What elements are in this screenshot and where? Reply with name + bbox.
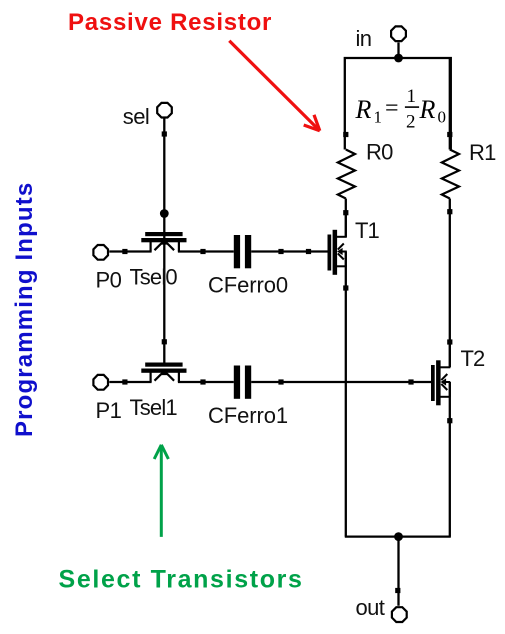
wire in terminal stub [397,43,399,59]
pin CFerro0 right [278,249,283,254]
wire Tsel0 drain to CFerro0 [178,250,234,252]
svg-text:2: 2 [406,112,416,133]
svg-text:Select Transistors: Select Transistors [59,566,304,594]
wire Tsel1 drain to CFerro1 [178,381,234,383]
wire P0 to Tsel0 source [109,250,151,252]
junction in node [394,54,403,63]
wire left branch R0 bottom to T1 drain [345,199,347,237]
svg-text:0: 0 [438,108,447,127]
svg-text:Tsel0: Tsel0 [130,265,178,290]
pin T2 gate [408,379,413,384]
wire T1 source down to bottom rail [345,252,347,537]
wire P1 to Tsel1 source [109,381,151,383]
svg-text:T1: T1 [355,218,379,243]
pin sel wire upper [162,131,167,136]
svg-text:sel: sel [123,104,149,129]
pin R1 bottom [447,209,452,214]
svg-text:R1: R1 [469,140,496,165]
svg-text:1: 1 [374,108,383,127]
transistor Tsel0 [141,232,186,252]
wire sel vertical (sel to Tsel1 gate) [163,119,165,364]
terminal out [392,607,407,622]
terminal octagons [93,26,406,622]
resistor R1 [442,150,459,199]
resistor R0 [338,150,355,199]
pin T2 drain [447,339,452,344]
terminal in [391,26,406,41]
equation R1 = 1/2 R0 [355,86,447,133]
svg-text:=: = [385,96,399,122]
svg-text:Programming Inputs: Programming Inputs [11,182,38,437]
svg-text:P1: P1 [96,398,122,423]
svg-text:1: 1 [407,86,417,107]
transistor T2 [431,342,450,405]
pin R0 bottom / T1 drain [343,210,348,215]
wire CFerro0 to T1 gate [251,250,328,252]
terminal P1 [93,375,108,390]
svg-text:P0: P0 [96,268,122,293]
junction out node [394,532,403,541]
pin Tsel1 gate [162,339,167,344]
pin T1 gate [306,249,311,254]
annotation red arrow [229,41,319,131]
annotation green arrow [154,445,168,537]
transistor T1 [328,212,347,275]
pin R1 top [447,132,452,137]
wire out terminal stub [397,537,399,606]
pin CFerro1 left [200,379,205,384]
svg-text:CFerro1: CFerro1 [208,403,288,428]
pin T2 source [447,418,452,423]
wire CFerro1 to T2 gate [251,381,431,383]
pin P1 [122,379,127,384]
equation fraction bar [405,106,419,108]
pin R0 top [343,132,348,137]
pin CFerro1 right [278,379,283,384]
wire top rail [345,58,451,150]
terminal sel [157,103,172,118]
svg-text:in: in [356,26,372,51]
svg-text:T2: T2 [461,346,485,371]
pin CFerro0 left [200,249,205,254]
pin out wire [395,588,400,593]
pin T1 source [343,285,348,290]
svg-text:Passive Resistor: Passive Resistor [68,9,272,36]
transistor Tsel1 [141,363,186,383]
terminal P0 [93,245,108,260]
wire right branch R1 bottom to T2 drain [449,199,451,368]
svg-text:R0: R0 [366,140,393,165]
svg-text:R: R [419,95,436,124]
pin P0 [122,249,127,254]
capacitor CFerro0 [234,235,251,268]
svg-text:Tsel1: Tsel1 [130,395,178,420]
junction sel to Tsel0 gate [160,209,169,218]
capacitor CFerro1 [234,366,251,399]
svg-text:CFerro0: CFerro0 [208,273,288,298]
svg-text:out: out [356,595,385,620]
wire bottom rail [345,535,451,537]
svg-text:R: R [355,95,372,124]
wire T2 source down to bottom rail [449,382,451,537]
